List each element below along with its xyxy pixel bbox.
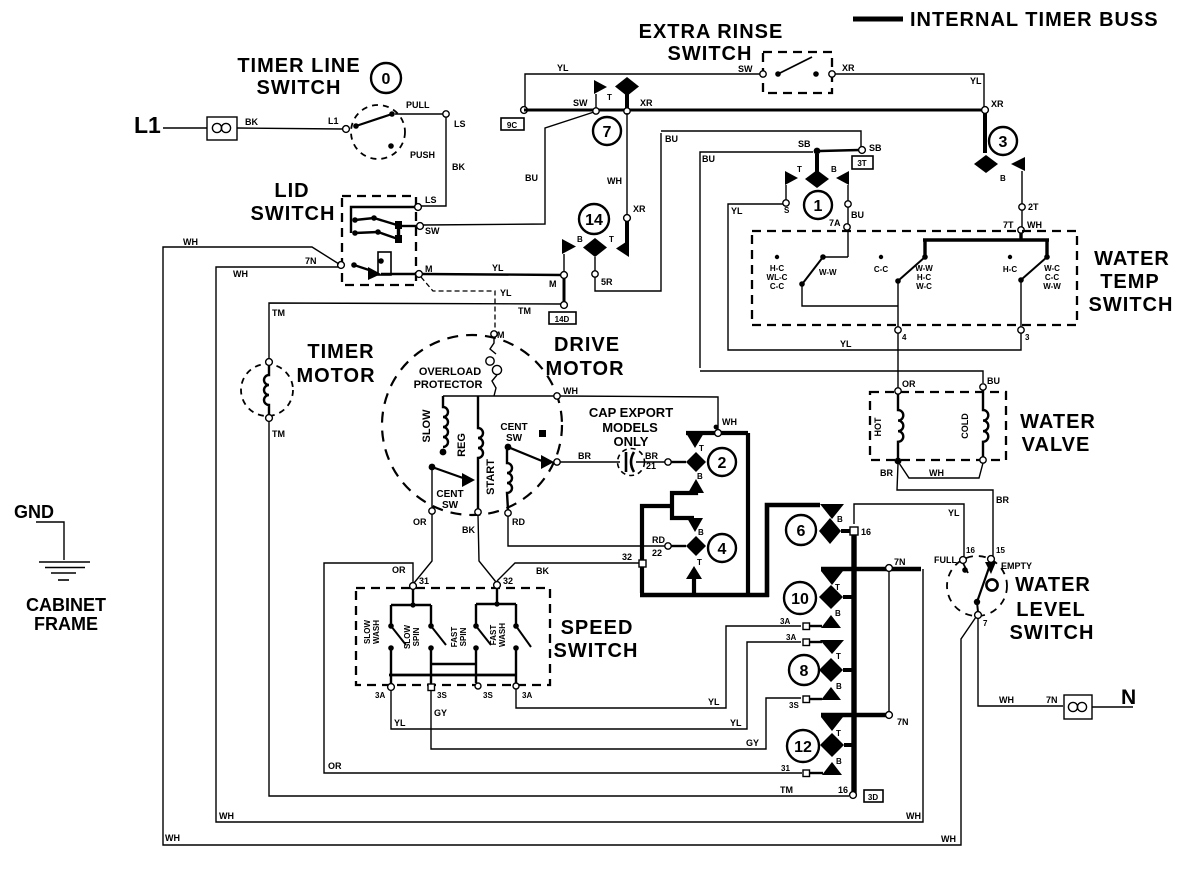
svg-text:SLOW: SLOW (363, 620, 372, 644)
svg-text:MOTOR: MOTOR (296, 365, 375, 387)
svg-text:WH: WH (929, 468, 944, 478)
wire TM left (269, 303, 561, 359)
svg-text:BK: BK (452, 162, 465, 172)
circle 2 (708, 448, 736, 476)
cent sw lower (413, 464, 475, 527)
terminal 14 block (562, 204, 646, 287)
ground GND (14, 502, 90, 580)
svg-text:SB: SB (869, 143, 882, 153)
svg-text:WH: WH (233, 269, 248, 279)
lid switch internals (305, 195, 440, 280)
svg-text:YL: YL (394, 718, 406, 728)
svg-text:WL-C: WL-C (767, 273, 788, 282)
svg-text:32: 32 (503, 576, 513, 586)
speed switch buses (389, 664, 517, 684)
speed switch internals left pair (388, 589, 446, 675)
svg-text:2T: 2T (1028, 202, 1039, 212)
svg-text:7N: 7N (1046, 695, 1058, 705)
svg-text:M: M (425, 264, 433, 274)
svg-text:16: 16 (966, 546, 975, 555)
circle 7 (593, 117, 621, 145)
svg-text:BK: BK (536, 566, 549, 576)
svg-text:B: B (577, 235, 583, 244)
node XR bus left end (521, 107, 528, 114)
speed switch internals right pair (473, 588, 531, 675)
svg-text:WH: WH (219, 811, 234, 821)
speed switch box (356, 588, 638, 685)
wire WH left frame outer (163, 237, 976, 845)
svg-text:CENT: CENT (500, 422, 527, 433)
svg-text:TEMP: TEMP (1100, 271, 1160, 293)
svg-text:7A: 7A (829, 218, 841, 228)
svg-text:PROTECTOR: PROTECTOR (414, 379, 483, 391)
wire 5R from 14 to SB riser (595, 133, 661, 291)
wire YL dashed to drive motor M (421, 277, 512, 330)
svg-text:14D: 14D (555, 315, 570, 324)
legend: internal timer buss (853, 9, 1159, 31)
svg-text:BR: BR (880, 468, 893, 478)
wire XR internal timer buss (524, 109, 985, 112)
capacitor (560, 449, 671, 476)
svg-text:S: S (784, 206, 790, 215)
svg-text:SW: SW (573, 98, 588, 108)
svg-text:7N: 7N (897, 717, 909, 727)
svg-text:GY: GY (434, 708, 447, 718)
svg-text:RD: RD (512, 517, 525, 527)
svg-text:31: 31 (781, 764, 790, 773)
reg winding (456, 396, 483, 535)
svg-text:C-C: C-C (874, 265, 888, 274)
svg-text:OR: OR (413, 517, 427, 527)
svg-text:T: T (836, 652, 841, 661)
svg-text:W-W: W-W (819, 268, 837, 277)
svg-text:WH: WH (722, 417, 737, 427)
svg-text:SWITCH: SWITCH (668, 43, 753, 65)
svg-text:SPIN: SPIN (412, 627, 421, 646)
svg-text:15: 15 (996, 546, 1005, 555)
svg-text:T: T (836, 729, 841, 738)
circle 14 (579, 204, 609, 234)
svg-text:BU: BU (987, 376, 1000, 386)
wire RD to terminal 4 (508, 516, 665, 558)
svg-text:WH: WH (999, 695, 1014, 705)
cent sw upper (500, 422, 560, 469)
water valve hot coil (873, 388, 903, 478)
svg-text:OR: OR (902, 379, 916, 389)
svg-text:H-C: H-C (917, 273, 931, 282)
svg-text:CENT: CENT (436, 489, 463, 500)
svg-text:7: 7 (603, 124, 612, 141)
wire YL extra rinse to XR corner (835, 74, 984, 107)
connector plug L1 (207, 117, 237, 140)
svg-text:7T: 7T (1003, 220, 1014, 230)
wire BK down to lid switch LS (421, 117, 446, 206)
svg-text:PUSH: PUSH (410, 150, 435, 160)
svg-text:B: B (836, 757, 842, 766)
svg-text:WH: WH (607, 176, 622, 186)
svg-text:B: B (836, 682, 842, 691)
svg-text:BR: BR (996, 495, 1009, 505)
node 31 (410, 576, 429, 589)
wire OR centsw to node 31 (414, 514, 432, 583)
svg-text:3A: 3A (375, 691, 385, 700)
svg-text:6: 6 (797, 523, 806, 540)
svg-text:FRAME: FRAME (34, 614, 98, 634)
svg-text:GND: GND (14, 502, 54, 522)
lid switch (251, 180, 416, 285)
svg-text:WH: WH (165, 833, 180, 843)
svg-text:MOTOR: MOTOR (545, 358, 624, 380)
drive motor M node (491, 330, 505, 340)
wire motor top junction (443, 386, 578, 399)
cabinet frame label (26, 595, 106, 634)
svg-text:3S: 3S (437, 691, 447, 700)
svg-text:LS: LS (425, 195, 437, 205)
svg-text:3A: 3A (522, 691, 532, 700)
start winding (485, 449, 525, 527)
wire OR node4 to water valve (898, 333, 916, 389)
wire BU to water valve cold (700, 371, 1000, 386)
wire WH valve jumper (899, 463, 983, 478)
svg-text:FAST: FAST (450, 627, 459, 648)
extra rinse switch (639, 21, 855, 93)
svg-text:FAST: FAST (489, 625, 498, 646)
wire GY speed 3S to term 8 (431, 691, 801, 749)
svg-text:T: T (697, 558, 702, 567)
water valve box (870, 392, 1096, 460)
svg-text:14: 14 (585, 212, 603, 229)
svg-text:T: T (607, 93, 612, 102)
svg-text:22: 22 (652, 548, 662, 558)
svg-text:T: T (699, 444, 704, 453)
node SB right (859, 143, 882, 153)
terminal 10 block (780, 571, 852, 630)
svg-text:SW: SW (506, 433, 523, 444)
svg-text:HOT: HOT (873, 417, 883, 437)
water level switch (934, 546, 1094, 644)
svg-text:WASH: WASH (498, 623, 507, 647)
14D tag (549, 312, 576, 324)
circle 12 (787, 730, 819, 762)
svg-text:WH: WH (941, 834, 956, 844)
wire OR bottom run (324, 563, 802, 773)
svg-text:H-C: H-C (770, 264, 784, 273)
svg-text:SLOW: SLOW (403, 625, 412, 649)
svg-text:W-W: W-W (915, 264, 933, 273)
svg-text:9C: 9C (507, 121, 517, 130)
node 4 (895, 327, 907, 342)
svg-text:3T: 3T (857, 159, 866, 168)
svg-text:BR: BR (645, 451, 658, 461)
svg-text:B: B (697, 472, 703, 481)
svg-text:WH: WH (563, 386, 578, 396)
svg-text:XR: XR (842, 63, 855, 73)
svg-text:W-C: W-C (916, 282, 932, 291)
svg-text:5R: 5R (601, 277, 613, 287)
circle 8 (789, 655, 819, 685)
svg-text:BK: BK (462, 525, 475, 535)
wire WH down from XR bus (607, 113, 627, 215)
svg-text:INTERNAL TIMER BUSS: INTERNAL TIMER BUSS (910, 9, 1159, 31)
svg-text:LID: LID (274, 180, 309, 202)
svg-text:16: 16 (861, 527, 871, 537)
svg-text:YL: YL (557, 63, 569, 73)
svg-text:XR: XR (991, 99, 1004, 109)
speed switch rotated labels (363, 620, 507, 649)
3D tag (864, 790, 883, 802)
svg-text:0: 0 (382, 71, 391, 88)
svg-text:OVERLOAD: OVERLOAD (419, 366, 481, 378)
svg-text:TM: TM (780, 785, 793, 795)
svg-text:1: 1 (814, 198, 823, 215)
svg-text:3D: 3D (868, 793, 878, 802)
svg-text:3S: 3S (483, 691, 493, 700)
svg-text:YL: YL (970, 76, 982, 86)
wire BU lower to SB dot (700, 139, 859, 368)
wire 7N rail upper (821, 557, 921, 571)
svg-text:WATER: WATER (1094, 248, 1170, 270)
cap export label (589, 405, 673, 449)
svg-text:LS: LS (454, 119, 466, 129)
svg-text:BK: BK (245, 117, 258, 127)
terminal 8 block (786, 633, 852, 710)
svg-text:SWITCH: SWITCH (1010, 622, 1095, 644)
svg-text:WATER: WATER (1015, 574, 1091, 596)
wire BR valve out (897, 464, 1009, 556)
svg-text:BU: BU (665, 134, 678, 144)
3T tag (852, 156, 873, 169)
svg-text:3: 3 (999, 134, 1008, 151)
circle 3 (989, 127, 1017, 155)
timer motor (241, 341, 376, 439)
svg-text:CAP EXPORT: CAP EXPORT (589, 405, 673, 420)
svg-text:MODELS: MODELS (602, 420, 658, 435)
svg-text:OR: OR (392, 565, 406, 575)
temp switch contact 1 (799, 230, 898, 306)
svg-text:YL: YL (731, 206, 743, 216)
svg-text:ONLY: ONLY (614, 434, 649, 449)
circle 4 (708, 534, 736, 562)
wire BU lid SW to timer SW (423, 112, 594, 225)
svg-text:COLD: COLD (960, 413, 970, 439)
slow winding (421, 396, 448, 455)
overload protector (414, 337, 502, 396)
svg-text:WH: WH (183, 237, 198, 247)
svg-text:C-C: C-C (770, 282, 784, 291)
svg-text:16: 16 (838, 785, 848, 795)
svg-text:7: 7 (983, 619, 988, 628)
wire L1 lead (163, 127, 207, 129)
svg-text:WH: WH (1027, 220, 1042, 230)
svg-text:3S: 3S (789, 701, 799, 710)
svg-text:EXTRA RINSE: EXTRA RINSE (639, 21, 784, 43)
wire 7N link (888, 572, 890, 712)
wire WH motor to terminal 2 (560, 396, 718, 430)
svg-text:START: START (485, 459, 497, 495)
temp switch contact 3 (1018, 254, 1050, 327)
drive motor (382, 334, 625, 515)
svg-text:WH: WH (906, 811, 921, 821)
svg-text:TIMER LINE: TIMER LINE (237, 55, 360, 77)
svg-text:DRIVE: DRIVE (554, 334, 620, 356)
svg-text:B: B (831, 165, 837, 174)
svg-text:3A: 3A (786, 633, 796, 642)
circle 0 (371, 63, 401, 93)
wire TM bottom run (269, 421, 849, 796)
water temp switch box (752, 231, 1173, 325)
svg-text:B: B (835, 609, 841, 618)
svg-text:GY: GY (746, 738, 759, 748)
temp switch contact 2 (895, 254, 928, 327)
svg-text:T: T (609, 235, 614, 244)
timer line switch (237, 55, 465, 172)
svg-text:XR: XR (633, 204, 646, 214)
svg-text:M: M (549, 279, 557, 289)
svg-text:CABINET: CABINET (26, 595, 106, 615)
svg-text:SWITCH: SWITCH (257, 77, 342, 99)
svg-text:W-C: W-C (1044, 264, 1060, 273)
svg-text:LEVEL: LEVEL (1016, 599, 1085, 621)
svg-text:L1: L1 (134, 112, 161, 138)
node M junction (549, 272, 567, 309)
circle 10 (784, 582, 816, 614)
circle 1 (804, 191, 832, 219)
speed switch bottom terminals (375, 683, 532, 700)
9C tag (501, 118, 524, 130)
svg-text:T: T (797, 165, 802, 174)
svg-text:SPIN: SPIN (459, 627, 468, 646)
svg-text:TM: TM (518, 306, 531, 316)
svg-text:EMPTY: EMPTY (1001, 561, 1032, 571)
terminal 4 block (665, 518, 706, 593)
wire YL speed 3A left to term 8 (391, 642, 801, 729)
svg-text:WATER: WATER (1020, 411, 1096, 433)
temp switch position labels (767, 255, 1062, 291)
circle 6 (786, 515, 816, 545)
svg-text:OR: OR (328, 761, 342, 771)
svg-text:SB: SB (798, 139, 811, 149)
terminal 2 block (671, 417, 748, 493)
svg-text:YL: YL (730, 718, 742, 728)
svg-text:C-C: C-C (1045, 273, 1059, 282)
svg-text:B: B (837, 515, 843, 524)
svg-text:B: B (698, 528, 704, 537)
temp switch internal buss (923, 233, 1049, 255)
svg-text:TIMER: TIMER (307, 341, 374, 363)
svg-text:SW: SW (442, 500, 459, 511)
svg-text:7N: 7N (894, 557, 906, 567)
svg-text:PULL: PULL (406, 100, 430, 110)
wire YL from S node to temp switch node 3 (728, 204, 1021, 350)
wire WH water level to N (978, 618, 1063, 706)
svg-text:TM: TM (272, 308, 285, 318)
terminal 3 block (974, 113, 1042, 233)
svg-text:BU: BU (851, 210, 864, 220)
svg-text:L1: L1 (328, 116, 339, 126)
wire YL top left (525, 63, 763, 107)
svg-text:YL: YL (840, 339, 852, 349)
wire YL buss lid M to drive area (423, 263, 562, 275)
terminal 7 block (573, 77, 653, 114)
svg-text:4: 4 (718, 541, 727, 558)
wire BU upper to SB (661, 131, 861, 147)
svg-text:H-C: H-C (1003, 265, 1017, 274)
svg-text:N: N (1121, 686, 1136, 709)
svg-text:W-W: W-W (1043, 282, 1061, 291)
connector plug N (1064, 695, 1133, 719)
water valve cold coil (960, 384, 988, 463)
svg-text:WASH: WASH (372, 620, 381, 644)
svg-text:3: 3 (1025, 333, 1030, 342)
wire WH left frame inner (216, 267, 923, 822)
svg-text:SLOW: SLOW (421, 409, 433, 443)
wire BK from plug to timer line switch (237, 128, 343, 129)
wire BK to node 32 (497, 552, 646, 581)
timer buss staircase 2-4 (640, 433, 820, 597)
terminal 6 block (819, 504, 871, 544)
svg-text:BU: BU (702, 154, 715, 164)
svg-text:SW: SW (425, 226, 440, 236)
svg-text:31: 31 (419, 576, 429, 586)
svg-text:3A: 3A (780, 617, 790, 626)
svg-text:SWITCH: SWITCH (251, 203, 336, 225)
svg-text:TM: TM (272, 429, 285, 439)
wire YL speed 3A right to term 10 (516, 626, 801, 708)
svg-text:YL: YL (492, 263, 504, 273)
svg-text:REG: REG (456, 433, 468, 457)
svg-text:YL: YL (708, 697, 720, 707)
svg-text:12: 12 (794, 739, 812, 756)
svg-text:FULL: FULL (934, 555, 957, 565)
svg-text:XR: XR (640, 98, 653, 108)
wire BK regsw to node 32 (478, 515, 496, 582)
svg-text:21: 21 (646, 461, 656, 471)
svg-text:RD: RD (652, 535, 665, 545)
svg-text:B: B (1000, 174, 1006, 183)
svg-text:32: 32 (622, 552, 632, 562)
svg-text:YL: YL (948, 508, 960, 518)
svg-text:VALVE: VALVE (1022, 434, 1091, 456)
svg-text:SWITCH: SWITCH (1089, 294, 1174, 316)
svg-text:M: M (497, 330, 505, 340)
svg-text:SWITCH: SWITCH (554, 640, 639, 662)
node 16 bottom (838, 785, 856, 798)
svg-text:8: 8 (800, 663, 809, 680)
svg-text:BU: BU (525, 173, 538, 183)
svg-text:SPEED: SPEED (561, 617, 634, 639)
node XR right (982, 99, 1004, 113)
svg-text:2: 2 (718, 455, 727, 472)
node 3 (1018, 327, 1030, 342)
node 32 (494, 576, 513, 588)
svg-text:7N: 7N (305, 256, 317, 266)
svg-text:BR: BR (578, 451, 591, 461)
terminal 1 block (783, 154, 864, 230)
wire YL to water level full (854, 504, 964, 556)
svg-text:4: 4 (902, 333, 907, 342)
svg-text:YL: YL (500, 288, 512, 298)
svg-text:SW: SW (738, 64, 753, 74)
terminal 12 block (781, 717, 852, 777)
wire 7N rail lower (821, 712, 909, 727)
internal timer buss vertical (851, 528, 856, 795)
svg-text:10: 10 (791, 591, 809, 608)
